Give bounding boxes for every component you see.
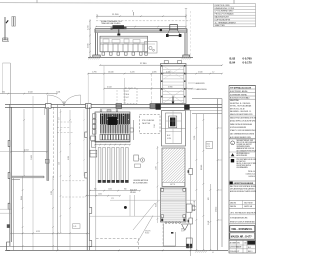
plan outer corner topleft	[3, 63, 11, 94]
right wall ticks	[217, 127, 222, 221]
interior dim vline 2	[32, 96, 34, 250]
conveyor label 2	[181, 228, 185, 233]
bottom-left vline d	[68, 110, 71, 250]
hall wall bump right 1	[89, 207, 91, 213]
dashed rows lower left	[62, 181, 85, 197]
crane trolley left	[111, 25, 127, 30]
svg-text:HOCHSTGN: HOCHSTGN	[237, 161, 246, 163]
svg-text:B.02: B.02	[167, 135, 170, 137]
wall dark block left of tower	[156, 103, 161, 109]
svg-text:0.760: 0.760	[167, 138, 171, 140]
svg-text:5.325: 5.325	[68, 156, 70, 160]
machine outer box	[95, 112, 130, 250]
svg-text:8.508: 8.508	[155, 203, 157, 207]
svg-text:2.783: 2.783	[51, 191, 53, 195]
svg-text:VERMERKUNGEN: VERMERKUNGEN	[237, 146, 250, 148]
svg-text:4.544: 4.544	[28, 92, 33, 94]
tower feed arrow	[172, 97, 175, 105]
machine left boxes	[92, 114, 96, 134]
under-machine dim chain 2	[85, 194, 121, 197]
svg-text:3.630: 3.630	[88, 44, 90, 49]
crane beam	[95, 29, 187, 33]
wall column 1	[46, 104, 52, 109]
svg-text:57.360: 57.360	[140, 63, 147, 65]
small part between	[130, 120, 134, 140]
bottom-left dim vline b	[51, 176, 54, 250]
tower left dim text	[154, 124, 156, 128]
svg-text:1.790: 1.790	[92, 71, 97, 73]
conveyor funnel	[182, 224, 189, 230]
svg-text:8.444: 8.444	[21, 196, 23, 200]
elevation machine body	[100, 36, 148, 52]
beam mount dot	[160, 29, 163, 32]
detail bracket plates	[12, 17, 15, 27]
svg-text:4.5: 4.5	[212, 252, 214, 254]
svg-text:800: 800	[124, 188, 127, 190]
svg-text:s: s	[232, 143, 233, 145]
svg-text:HEBEVORR.: HEBEVORR.	[196, 83, 206, 85]
svg-text:1.2: 1.2	[212, 71, 214, 73]
elevation annotation text	[101, 20, 123, 25]
hall wall box	[83, 109, 97, 176]
svg-text:DATUM: DATUM	[230, 201, 236, 204]
elevation right dashed edge	[185, 8, 191, 57]
right dim vline 2	[201, 114, 204, 251]
grid bracket 2	[189, 218, 193, 224]
elevation dim text 11.240	[112, 14, 119, 16]
right dim vline 1	[194, 114, 197, 251]
tower upper block	[161, 61, 187, 104]
wall column 2	[86, 104, 92, 109]
svg-text:BODENLEGTUNGSBAU: BODENLEGTUNGSBAU	[230, 97, 250, 100]
leader note 2	[188, 88, 207, 91]
spreader hook right	[179, 34, 182, 37]
svg-text:GEZ: MKM: GEZ: MKM	[244, 202, 253, 204]
chute box	[164, 224, 176, 247]
elevation ground hatch	[88, 57, 191, 59]
svg-text:2.77: 2.77	[126, 91, 129, 93]
svg-text:NR ZU ERNEUERN: NR ZU ERNEUERN	[133, 183, 148, 185]
svg-text:11.435: 11.435	[31, 155, 33, 160]
elevation top dimension line	[96, 14, 187, 19]
hall wall	[87, 104, 89, 250]
svg-text:1:50: 1:50	[244, 243, 247, 245]
plan top wall	[5, 104, 222, 110]
interior dim vline e	[58, 109, 61, 234]
svg-text:B.02: B.02	[230, 57, 236, 61]
grid line A	[103, 66, 105, 104]
crane spreader bar	[166, 29, 182, 35]
dashed floor marks	[57, 122, 74, 133]
door dashes	[117, 90, 124, 104]
bottom dashed pit	[96, 239, 139, 251]
svg-text:2.640: 2.640	[198, 71, 203, 73]
svg-text:1.71: 1.71	[111, 198, 114, 200]
grid line B	[124, 78, 126, 104]
svg-text:VDB. - NVDSMETAL: VDB. - NVDSMETAL	[231, 228, 253, 231]
left wall bottom jog	[7, 242, 10, 250]
elevation machine top details	[100, 39, 148, 43]
svg-text:M.STELLEN BEMERK: M.STELLEN BEMERK	[230, 127, 247, 129]
bottom-left dim vline a	[22, 176, 24, 250]
elevation machine feet	[102, 52, 147, 55]
svg-text:SFBETTEN: SFBETTEN	[215, 25, 226, 27]
svg-text:DATUM: DATUM	[230, 205, 236, 208]
title block	[229, 86, 261, 254]
spreader hook left	[166, 34, 169, 37]
right boundary line 1	[215, 99, 217, 251]
crane trolley right	[169, 25, 178, 30]
hall wall bump right 2	[89, 240, 91, 246]
svg-text:2.210: 2.210	[88, 26, 90, 31]
top center mark	[132, 11, 134, 16]
tower machine block	[162, 111, 186, 147]
conveyor left dim line	[155, 146, 158, 223]
under-machine dim chain 1	[89, 188, 141, 191]
svg-text:0-0.170: 0-0.170	[243, 61, 253, 65]
svg-text:SCHREINER: BKHNL: SCHREINER: BKHNL	[230, 94, 247, 96]
svg-text:10.040: 10.040	[201, 165, 203, 170]
machine dim row	[94, 144, 131, 146]
elevation second dim line	[95, 26, 187, 28]
mid bottom hline	[110, 198, 196, 200]
machine drive unit	[89, 136, 95, 147]
interior dashed line	[53, 108, 55, 181]
svg-text:KETTE: KETTE	[170, 184, 175, 186]
dashed box upper	[125, 88, 137, 104]
bottom ground hatch	[195, 250, 214, 254]
svg-text:1.53: 1.53	[58, 162, 60, 165]
svg-text:BEZGL.V.GM SCHUTZ NRN: BEZGL.V.GM SCHUTZ NRN	[237, 163, 257, 165]
svg-text:5.220: 5.220	[130, 71, 135, 73]
detail mast slash mark	[6, 20, 8, 23]
level label B.02	[230, 57, 253, 61]
svg-text:GEPR: HB: GEPR: HB	[244, 206, 253, 208]
conveyor rollers	[165, 222, 180, 224]
left rotated dim text	[21, 155, 33, 200]
grid line above wall	[87, 74, 89, 104]
svg-text:KLEINTEILE BEZUG: KLEINTEILE BEZUG	[237, 165, 252, 167]
svg-text:1.45: 1.45	[73, 226, 76, 228]
svg-text:ELEKTRIKER: BKHNL: ELEKTRIKER: BKHNL	[230, 91, 248, 93]
svg-text:2.434: 2.434	[56, 92, 60, 94]
plan bottom line lower	[5, 250, 228, 252]
plan left wall	[10, 104, 12, 246]
mid bottom hline 2	[90, 215, 162, 217]
conveyor lower section	[161, 188, 187, 222]
svg-text:800: 800	[94, 188, 97, 190]
bracket ticks	[188, 170, 189, 222]
svg-text:47.153: 47.153	[215, 207, 217, 212]
svg-text:BL.1: BL.1	[248, 247, 251, 249]
svg-text:0.040/0.0 0-0: 0.040/0.0 0-0	[246, 173, 256, 175]
leader diagonals	[133, 203, 155, 243]
wall line upper right	[192, 99, 222, 114]
conveyor label 1	[145, 231, 150, 235]
svg-text:PSOE 4-0: PSOE 4-0	[248, 171, 255, 173]
svg-text:TRAEGER HEA 240 ANG.: TRAEGER HEA 240 ANG.	[101, 22, 121, 25]
elevation ground line	[88, 56, 193, 58]
svg-text:B.02: B.02	[207, 143, 210, 145]
left wall pilaster 1	[8, 141, 10, 147]
auslauf label	[130, 189, 137, 194]
svg-text:2.000: 2.000	[98, 194, 102, 196]
svg-text:4.014: 4.014	[24, 150, 29, 152]
plan bottom line upper	[0, 246, 192, 248]
plan left dim line	[0, 92, 58, 95]
elevation cabinet right	[145, 42, 158, 54]
machine bottom row boxes	[95, 134, 130, 141]
grid bracket 1	[189, 169, 193, 175]
svg-text:MASCH.NR.: D-077-: MASCH.NR.: D-077-	[231, 235, 253, 238]
svg-text:LINKEN SIE GEPRFT: LINKEN SIE GEPRFT	[237, 144, 252, 146]
svg-text:B.04: B.04	[126, 94, 129, 96]
wall dark block right of tower	[184, 105, 189, 110]
left dim text blob	[7, 224, 10, 228]
svg-text:B.04: B.04	[230, 61, 236, 65]
grid line D	[190, 110, 192, 256]
crane hook left	[117, 30, 120, 36]
plan top dim line 57.360	[99, 63, 223, 66]
dim note box	[73, 224, 81, 229]
svg-text:1.200: 1.200	[155, 166, 157, 170]
svg-text:2.77: 2.77	[58, 117, 60, 120]
svg-text:0.17: 0.17	[126, 97, 129, 99]
svg-text:TYP APPBAU-AG AG-KN: TYP APPBAU-AG AG-KN	[230, 86, 252, 89]
left wall pilaster 3	[8, 203, 10, 209]
sheet border top line	[0, 0, 214, 3]
interior dim vline 1	[23, 109, 25, 177]
bottom-left dim vline c	[57, 104, 59, 250]
right boundary line 2	[221, 114, 223, 247]
plan left upper edge	[9, 63, 11, 104]
conveyor drive fitting	[186, 204, 196, 212]
right small label box	[206, 142, 213, 149]
svg-text:REV 0: REV 0	[248, 251, 253, 253]
interior wall segment	[12, 176, 44, 250]
under-machine labels	[133, 179, 148, 185]
elevation crane left leg	[93, 33, 100, 58]
grid line C	[151, 74, 153, 104]
svg-text:1.085: 1.085	[152, 71, 157, 73]
mid bottom vlines	[130, 195, 135, 216]
detail mast base box	[2, 38, 9, 41]
svg-text:KELLER: KELLER	[130, 192, 137, 194]
svg-text:7.890: 7.890	[194, 136, 196, 140]
svg-text:LETZ. EINTRAGUNG: ANDERUNG.: LETZ. EINTRAGUNG: ANDERUNG.	[230, 212, 256, 215]
svg-text:4.544: 4.544	[107, 86, 112, 88]
machine top marks	[100, 110, 118, 112]
svg-text:5.648: 5.648	[194, 201, 196, 205]
elevation hook travel dashed line	[96, 20, 190, 22]
interior thick wall	[45, 108, 50, 181]
svg-text:GEZ: GEZ	[237, 243, 240, 245]
conveyor upper hatch	[162, 148, 185, 187]
svg-text:0.76: 0.76	[207, 146, 210, 148]
wall column 4	[150, 104, 156, 109]
hall wall pilaster 1	[85, 132, 87, 138]
interior dim hline 4.014	[0, 150, 48, 153]
svg-text:VORGANGERZEICHN.: VORGANGERZEICHN.	[230, 216, 248, 219]
svg-text:853: 853	[208, 197, 210, 200]
plan dim chain mid	[103, 86, 193, 89]
left wall pilaster 2	[8, 173, 10, 179]
plan dim chain upper	[87, 71, 223, 74]
left edge hlines	[0, 209, 12, 213]
grid base dark	[186, 238, 192, 248]
svg-text:KELLER: KELLER	[145, 231, 150, 233]
machine hatched body	[100, 114, 129, 134]
svg-text:11.240: 11.240	[112, 14, 119, 16]
elevation machine panels	[103, 44, 143, 52]
level label B.04	[230, 61, 253, 65]
interior wall stub	[12, 179, 20, 181]
svg-text:4.575: 4.575	[36, 231, 40, 233]
floor drain dot	[124, 206, 127, 209]
dashed zone right of machine	[140, 115, 161, 134]
svg-text:4.180: 4.180	[166, 71, 171, 73]
svg-text:ZCHN.NR 077: ZCHN.NR 077	[230, 251, 240, 253]
legend table	[214, 0, 256, 27]
svg-text:5.648: 5.648	[208, 221, 210, 225]
svg-text:0-0.760: 0-0.760	[243, 57, 253, 61]
wall column 3	[116, 104, 122, 109]
svg-text:0.005/0.0: 0.005/0.0	[248, 176, 255, 178]
leader note 1	[188, 83, 205, 85]
svg-text:SELBSTING. N - I RECHNG: SELBSTING. N - I RECHNG	[230, 103, 251, 105]
bottom-left dim hline	[10, 231, 90, 234]
door swing arcs	[48, 92, 81, 106]
elevation crane right leg	[183, 33, 190, 58]
right dim vline 3	[208, 184, 211, 251]
detail mast vertical line	[4, 17, 5, 40]
small pump parts	[134, 155, 145, 167]
hall wall pilaster 2	[85, 172, 87, 178]
svg-text:1.200: 1.200	[108, 188, 112, 190]
machine legs	[98, 148, 129, 183]
svg-text:10.040: 10.040	[108, 71, 114, 73]
svg-text:ERSETZT DURCH: BRENNGAS: ERSETZT DURCH: BRENNGAS	[230, 220, 256, 223]
svg-text:R5300: R5300	[145, 233, 149, 235]
conveyor dashed line	[162, 224, 164, 248]
svg-text:2.140: 2.140	[154, 124, 156, 128]
elevation left dim line	[88, 20, 91, 58]
